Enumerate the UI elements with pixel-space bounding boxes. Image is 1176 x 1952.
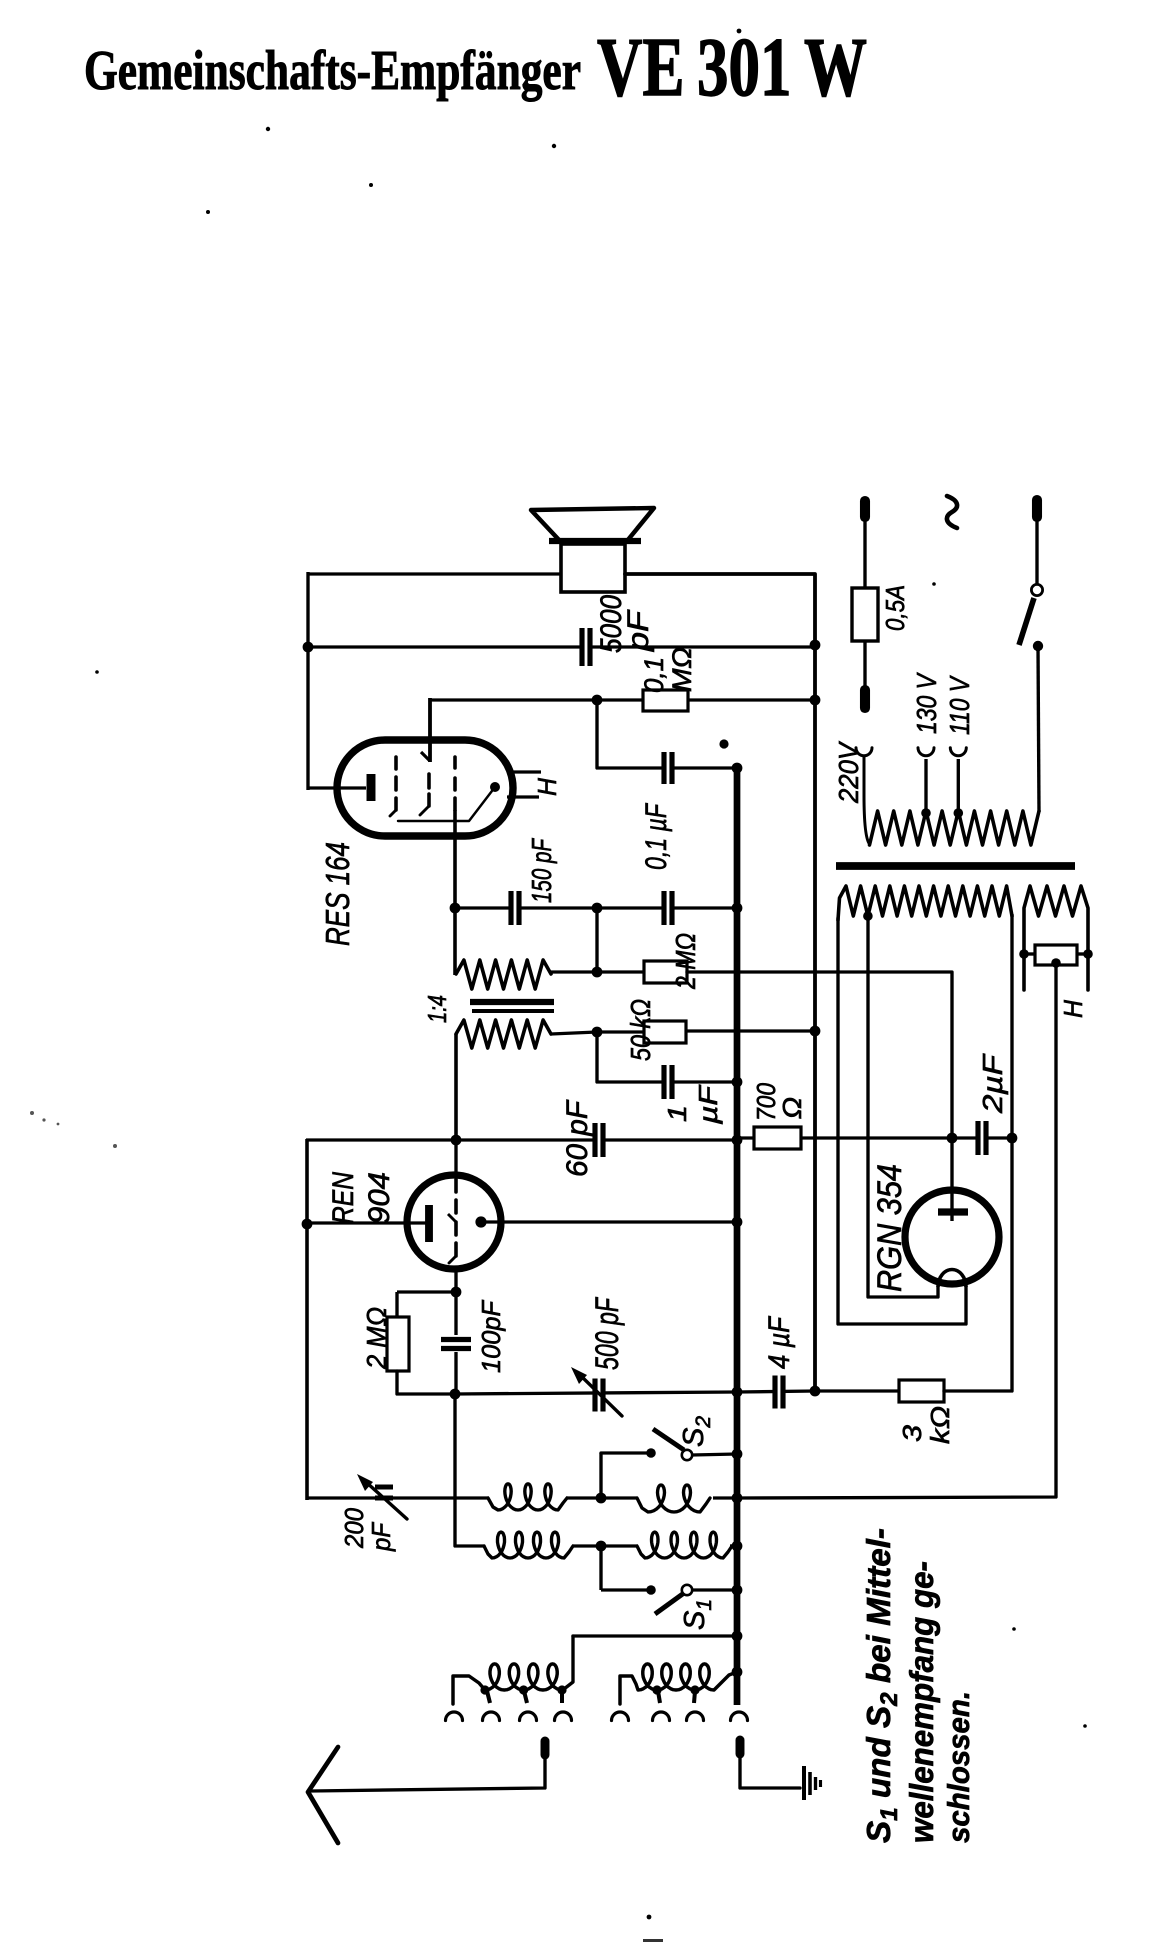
REN904 anode bar <box>425 1205 433 1242</box>
terminal cup 110V <box>950 748 966 756</box>
RES164 anode lead <box>307 786 366 789</box>
speck e <box>206 210 210 214</box>
svg-text:100pF: 100pF <box>476 1299 506 1373</box>
node winding1 right junction <box>592 967 603 978</box>
wire 1uF branch <box>597 1032 737 1082</box>
speck smudge <box>30 1111 117 1148</box>
fuse top capsule <box>860 501 870 517</box>
coil antenna L4 tapped <box>620 1664 737 1704</box>
node 50k/HT rail <box>810 1026 821 1037</box>
transformer 1:4 core bars <box>470 999 554 1005</box>
wire 3k line <box>815 1389 899 1392</box>
node humdinger center tap <box>1051 958 1061 968</box>
svg-text:110 V: 110 V <box>944 675 975 735</box>
node coil row1 junction <box>596 1493 607 1504</box>
svg-text:S1 und S2 bei Mittel-: S1 und S2 bei Mittel- <box>860 1528 903 1843</box>
node grid-leak top <box>451 1287 462 1298</box>
fuse lead bottom <box>863 641 866 690</box>
node 2uF right <box>1007 1133 1018 1144</box>
switch S2 blade <box>653 1429 684 1450</box>
tube RGN 354 envelope <box>905 1190 999 1284</box>
node S2 left contact <box>646 1448 656 1458</box>
wire heater return <box>737 963 1056 1498</box>
wire tank to row2 <box>455 1394 484 1546</box>
svg-text:4 µF: 4 µF <box>763 1316 796 1369</box>
RES164 grid3 bottom lead <box>453 810 457 908</box>
wire L2a to junction <box>572 1544 601 1547</box>
wire speaker to HT rail corner <box>625 574 815 1392</box>
terminal cup 130V <box>918 748 934 756</box>
L3 terminal hook 0 <box>446 1712 463 1721</box>
node tap 110V <box>954 808 964 818</box>
wire 130V lead <box>924 759 927 813</box>
REN904 grid dashes <box>454 1180 458 1192</box>
wire L1a to junction <box>566 1496 601 1499</box>
wire reaction line left <box>306 1496 489 1499</box>
capacitor 4uF <box>777 1376 780 1409</box>
resistor 0,1 M-ohm <box>643 690 688 711</box>
loudspeaker horn base bar <box>549 538 641 544</box>
wire secondary right end <box>1010 914 1013 1138</box>
tube REN 904 envelope <box>407 1175 501 1269</box>
node 150pF right junction <box>592 903 603 914</box>
node grid cap bottom <box>450 1389 461 1400</box>
REN904 bottom lead <box>454 1269 457 1292</box>
transformer 1:4 primary winding <box>456 960 551 989</box>
svg-text:H: H <box>1058 1000 1088 1018</box>
coil antenna L3 tapped <box>453 1664 562 1704</box>
capacitor 100pF <box>454 1292 457 1335</box>
capacitor 60pF <box>597 1123 600 1157</box>
L3 tap3 lead <box>560 1691 564 1703</box>
resistor 3 k-ohm <box>899 1380 944 1402</box>
svg-text:1: 1 <box>662 1105 692 1122</box>
node row2/chassis rail <box>732 1541 743 1552</box>
wire grid2 to coupling cap <box>597 700 737 768</box>
wire L1b to rail <box>713 1496 737 1499</box>
svg-text:RGN 354: RGN 354 <box>871 1164 909 1292</box>
humdinger resistor <box>1035 945 1077 965</box>
corner left rail REN904 top <box>305 1139 309 1500</box>
node coil row2 junction <box>596 1541 607 1552</box>
wire S1 vertical <box>599 1546 602 1590</box>
RES164 anode bar <box>367 774 376 801</box>
loudspeaker horn <box>531 508 654 541</box>
wire RES164 anode drop <box>306 572 309 790</box>
transformer 1:4 secondary winding <box>456 1020 551 1048</box>
speck g <box>647 1915 652 1920</box>
wire lower bus drop <box>564 1636 573 1689</box>
resistor 2 M-ohm grid leak <box>387 1317 409 1371</box>
capacitor 5000pF <box>584 628 587 666</box>
node L4 tap2 <box>690 1685 699 1694</box>
RES164 grid2 dashes <box>427 774 431 788</box>
svg-text:200: 200 <box>339 1508 369 1549</box>
coil L2a tuning <box>484 1532 573 1558</box>
node 1uF/chassis rail <box>732 1077 743 1088</box>
node L4/chassis rail <box>732 1667 743 1678</box>
svg-text:130 V: 130 V <box>911 672 942 734</box>
RGN354 filament left leg <box>868 918 938 1297</box>
mains switch lead <box>1035 517 1038 585</box>
mains switch blade <box>1019 598 1034 645</box>
node 0,1M left junction <box>592 695 603 706</box>
svg-text:kΩ: kΩ <box>925 1406 955 1444</box>
mains switch ring <box>1031 584 1042 595</box>
svg-text:H: H <box>532 778 562 796</box>
stray ink dot <box>719 739 728 748</box>
node tap 130V <box>921 808 931 818</box>
chassis rail (thick) <box>734 768 741 1705</box>
capacitor coupling (upper) <box>666 752 669 784</box>
node 60pF/chassis rail <box>732 1135 743 1146</box>
node humdinger left <box>1019 949 1029 959</box>
L3 tap2 lead <box>524 1691 527 1703</box>
resistor 700 ohm <box>754 1127 801 1149</box>
node row1/chassis rail <box>732 1493 743 1504</box>
svg-text:Ω: Ω <box>777 1097 807 1119</box>
speck d <box>369 183 373 187</box>
node 4uF/HT rail <box>810 1386 821 1397</box>
node S1/chassis rail <box>732 1585 743 1596</box>
node 0,1uF/chassis rail <box>732 903 743 914</box>
svg-text:schlossen.: schlossen. <box>941 1691 976 1843</box>
transformer primary winding <box>870 811 1040 845</box>
humdinger taps <box>1024 952 1035 955</box>
svg-text:Gemeinschafts-Empfänger: Gemeinschafts-Empfänger <box>84 40 581 102</box>
svg-text:RES 164: RES 164 <box>319 842 356 946</box>
node 2uF left <box>947 1133 958 1144</box>
node 0,1M/HT rail <box>810 695 821 706</box>
wire to 2M resistor <box>597 970 644 973</box>
arrow 200pF <box>366 1482 407 1519</box>
wire S1 left <box>601 1588 651 1591</box>
RGN354 filament arch <box>938 1270 966 1288</box>
node REN904 anode junction <box>302 1219 313 1230</box>
node cathode/chassis rail <box>732 1217 743 1228</box>
wire gridleak left drop <box>395 1292 398 1317</box>
wire 700ohm to 2uF <box>801 1136 952 1139</box>
node lower bus/chassis rail <box>732 1631 743 1642</box>
node grid lead/150pF <box>450 903 461 914</box>
node tank/chassis rail <box>732 1387 743 1398</box>
node S1 left contact <box>646 1585 656 1595</box>
capacitor 1uF <box>666 1065 669 1099</box>
wire earth lead <box>740 1756 800 1788</box>
svg-text:50 kΩ: 50 kΩ <box>625 999 656 1061</box>
RES164 heater lead top <box>507 770 541 773</box>
terminal cup 220V <box>856 748 872 756</box>
speck c <box>737 29 742 34</box>
loudspeaker driver box <box>561 544 625 592</box>
wire 50k line right <box>686 1029 815 1032</box>
wire 2M to RGN anode line <box>687 972 952 1138</box>
svg-text:500 pF: 500 pF <box>589 1296 625 1370</box>
wire 0,1M line <box>430 698 815 701</box>
wire 220V lead <box>864 757 870 844</box>
svg-text:2 MΩ: 2 MΩ <box>361 1307 392 1370</box>
speck bottom edge <box>643 1939 663 1942</box>
tube RES 164 envelope <box>337 740 513 836</box>
svg-text:µF: µF <box>693 1083 723 1125</box>
coil L2b tuning <box>637 1532 732 1558</box>
L4 terminal hook rail <box>731 1712 748 1721</box>
wire winding2 to 50k <box>551 1032 597 1034</box>
coil L1b reaction <box>637 1485 710 1512</box>
mains switch lead bottom <box>1038 646 1039 812</box>
wire grid to winding1 <box>453 908 457 975</box>
capacitor 200pF variable plates <box>375 1485 393 1490</box>
speck h <box>1012 1627 1016 1631</box>
wire winding2 left drop <box>454 1034 458 1140</box>
wire through 2uF <box>952 1136 1012 1139</box>
wire 150pF to winding1 link <box>595 908 598 972</box>
RES164 grid1 dashes <box>394 757 398 769</box>
node S2/chassis rail <box>732 1449 743 1460</box>
svg-text:pF: pF <box>366 1521 396 1552</box>
arrow 500pF <box>580 1375 622 1416</box>
ground symbol <box>802 1766 806 1800</box>
mains switch contact node <box>1033 641 1043 651</box>
switch S1 pivot ring <box>682 1585 692 1595</box>
RES164 grid3 dashes <box>453 757 457 768</box>
svg-text:wellenempfang ge-: wellenempfang ge- <box>903 1561 940 1843</box>
svg-text:VE 301 W: VE 301 W <box>597 21 867 114</box>
resistor 2 M-ohm (coupling) <box>644 961 687 983</box>
node 5000pF/HT rail <box>810 640 821 651</box>
node L3 tap2 <box>519 1685 528 1694</box>
speck i <box>1083 1724 1087 1728</box>
transformer core bar <box>836 862 1075 870</box>
REN904 grid hook <box>448 1214 456 1222</box>
svg-text:3: 3 <box>897 1424 927 1442</box>
svg-text:pF: pF <box>622 609 655 652</box>
wire gridleak bottom <box>397 1371 455 1394</box>
wire 700ohm line <box>737 1136 754 1139</box>
RES164 filament node <box>490 782 500 792</box>
wire L2b to rail <box>730 1544 737 1547</box>
earth plug capsule <box>736 1740 745 1754</box>
node secondary tap <box>863 911 873 921</box>
resistor 50 k-ohm <box>644 1021 686 1043</box>
node grid cap ring <box>451 1135 462 1146</box>
RGN354 anode lead <box>950 1138 953 1221</box>
antenna plug capsule <box>541 1741 550 1755</box>
wire S2 left <box>601 1451 651 1454</box>
wire tank line <box>455 1392 737 1394</box>
node anode/5000pF junction <box>303 642 314 653</box>
wire junction to L2b <box>601 1544 638 1547</box>
svg-text:904: 904 <box>363 1172 396 1224</box>
svg-text:150 pF: 150 pF <box>526 838 557 903</box>
speck f <box>95 670 99 674</box>
L4 terminal hook 0 <box>612 1712 629 1721</box>
RGN354 filament right leg <box>838 918 966 1324</box>
wire winding1 to 2M resistor <box>551 970 597 973</box>
node L4 tap1 <box>652 1685 661 1694</box>
wire 50k line left <box>597 1030 644 1033</box>
RES164 filament wire <box>398 787 495 821</box>
transformer filament winding <box>1024 886 1088 990</box>
capacitor 500pF variable <box>597 1379 600 1412</box>
capacitor 2uF <box>980 1121 983 1155</box>
node 50k left junction <box>592 1027 603 1038</box>
node L3 tap1 <box>480 1685 489 1694</box>
svg-text:2 MΩ: 2 MΩ <box>670 933 701 990</box>
svg-text:MΩ: MΩ <box>667 647 697 692</box>
switch S2 pivot ring <box>682 1450 692 1460</box>
antenna symbol <box>308 1747 338 1843</box>
AC tilde <box>947 496 957 528</box>
wire S2 to coil junction <box>599 1453 602 1498</box>
REN904 cathode node <box>475 1216 486 1227</box>
wire gridleak top <box>397 1290 456 1293</box>
svg-text:REN: REN <box>327 1172 360 1224</box>
coil L1a reaction <box>488 1484 567 1510</box>
svg-text:0,1: 0,1 <box>639 657 669 693</box>
wire anode top left <box>308 572 561 575</box>
capacitor 0,1uF (lower) <box>666 891 669 925</box>
wire lower bus <box>573 1634 737 1637</box>
REN904 cathode lead <box>481 1220 737 1223</box>
L4 tap1 lead <box>658 1691 660 1703</box>
L3 tap1 lead <box>487 1691 490 1703</box>
speck b <box>552 144 556 148</box>
wire 5000pF line <box>308 645 815 648</box>
REN904 anode lead <box>306 1221 426 1224</box>
svg-text:2µF: 2µF <box>977 1053 1008 1114</box>
wire 60pF line <box>306 1138 737 1141</box>
wire 3k to cathode riser <box>944 1138 1012 1391</box>
wire antenna lead <box>311 1757 545 1791</box>
RES164 grid2 top lead <box>428 698 432 762</box>
REN904 grid lead up <box>454 1140 457 1180</box>
node coupling cap / chassis rail top <box>732 763 743 774</box>
fuse bottom capsule <box>860 690 870 708</box>
RES164 grid2 hook <box>421 752 430 761</box>
wire 4uF link <box>737 1391 815 1392</box>
svg-text:0,5A: 0,5A <box>880 585 910 631</box>
svg-text:220V: 220V <box>833 741 864 804</box>
speck a <box>266 127 270 131</box>
svg-text:1:4: 1:4 <box>422 995 452 1023</box>
svg-text:60 pF: 60 pF <box>561 1099 594 1177</box>
RES164 heater lead bottom <box>507 795 539 798</box>
switch S1 blade <box>655 1593 684 1614</box>
wire 110V lead <box>957 759 960 813</box>
node humdinger right <box>1083 949 1093 959</box>
wire 150pF line <box>455 906 737 909</box>
node L3 tap3 <box>557 1685 566 1694</box>
mains switch top capsule <box>1032 500 1042 517</box>
wire S2 right <box>692 1454 737 1455</box>
speck j <box>932 582 936 586</box>
capacitor 150pF <box>513 891 516 925</box>
RGN354 anode bar <box>938 1208 968 1215</box>
wire junction to L1b <box>601 1496 637 1499</box>
fuse lead top <box>863 517 866 590</box>
wire S1 right <box>692 1588 737 1591</box>
transformer secondary winding <box>838 886 1012 920</box>
fuse body <box>852 588 878 641</box>
svg-text:0,1 µF: 0,1 µF <box>640 803 673 870</box>
L4 tap2 lead <box>694 1691 695 1703</box>
